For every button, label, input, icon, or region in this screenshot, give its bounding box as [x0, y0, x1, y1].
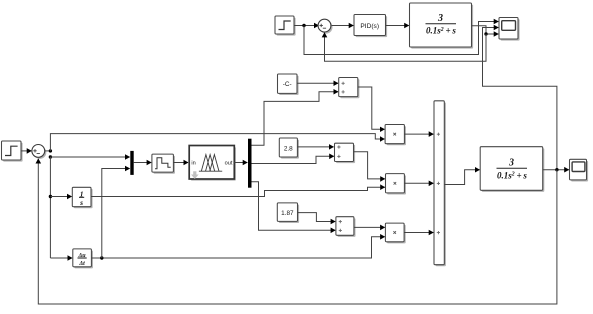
constant -C- — [278, 74, 299, 95]
product x1 — [385, 125, 406, 146]
wire Add1 to x1 in1 — [358, 87, 385, 129]
wire Mux to Quantizer — [134, 162, 152, 164]
scope Scope2 — [570, 159, 589, 181]
wire Step1 to Sum1 — [294, 25, 319, 27]
wire step branch down to Scope1 in1 — [304, 22, 498, 55]
wire PID to TF1 — [386, 25, 409, 27]
svg-text:s: s — [79, 198, 83, 207]
wire x2 to TallAdd in2 — [404, 182, 433, 184]
node error branch to mux — [49, 155, 52, 158]
node step branch junction — [302, 24, 305, 27]
node TF2 output junction — [555, 168, 558, 171]
wire error up-branch to x1 in2 (P term) — [50, 134, 384, 151]
wire Sum1 to PID — [332, 25, 354, 27]
svg-text:1.87: 1.87 — [281, 210, 294, 217]
wire integrator out to x2 in2 — [91, 187, 385, 196]
wire error to Mux in1 — [50, 156, 129, 158]
derivative block du/dt — [73, 249, 93, 269]
fuzzy logic controller — [189, 146, 236, 181]
svg-text:Δt: Δt — [78, 261, 85, 267]
svg-text:out: out — [225, 161, 233, 167]
quantizer block — [152, 154, 175, 174]
sum Sum1 — [318, 19, 332, 33]
transfer function TF2 3/(0.1s^2+s) — [480, 147, 544, 192]
node derivative output junction — [100, 256, 103, 259]
wire TF2 to Scope2 — [543, 169, 569, 171]
wire Step to Sum2 — [21, 150, 31, 152]
wire error to derivative du/dt — [50, 257, 72, 259]
wire derivative up to Mux in2 — [102, 169, 130, 259]
node error junction e — [49, 149, 52, 152]
wire 2.8 to Add2 in1 — [297, 146, 333, 148]
wire error to integrator 1/s — [50, 196, 71, 198]
sum Sum2 — [32, 145, 46, 159]
wire Demux out2 to Add2 in2 — [252, 156, 334, 163]
adder TallAdd — [434, 101, 446, 266]
step source Step (main) — [2, 141, 23, 162]
node error branch to integrator — [49, 195, 52, 198]
product x2 — [386, 174, 407, 195]
wire TF2 response up to Scope1 in2 — [483, 28, 557, 170]
product x3 — [385, 223, 405, 243]
wire -C- to Add1 in1 — [297, 82, 338, 84]
wire 1.87 to Add3 in1 — [298, 213, 336, 222]
wire Demux out3 to Add3 in2 — [252, 182, 336, 231]
wire Sum2 out to error junction — [45, 150, 51, 152]
adder Add2 — [335, 143, 356, 163]
wire error down-branch — [49, 157, 51, 258]
integrator 1/s — [72, 187, 92, 208]
constant 2.8 — [279, 138, 299, 159]
wire x1 to TallAdd in1 — [404, 133, 433, 135]
wire Fuzzy to Demux — [234, 162, 247, 164]
wire TallAdd to TF2 — [444, 170, 479, 185]
wire Quantizer to Fuzzy — [173, 162, 188, 164]
wire Add3 to x3 in1 — [354, 226, 385, 228]
wire TF1 out to Scope1 in3 — [472, 26, 499, 34]
svg-text:3: 3 — [437, 13, 443, 24]
wire TF1 feedback to Sum1 bottom — [325, 33, 487, 61]
wire Add2 to x2 in1 — [354, 152, 385, 179]
svg-text:3: 3 — [508, 157, 514, 168]
transfer function TF1 3/(0.1s^2+s) — [410, 3, 474, 49]
svg-text:in: in — [191, 161, 195, 167]
wire x3 to TallAdd in3 — [404, 232, 433, 234]
mux Mux — [130, 151, 133, 175]
wire derivative out to x3 in2 — [91, 237, 384, 258]
PID controller PID(s) — [354, 15, 387, 38]
svg-text:PID(s): PID(s) — [360, 23, 379, 30]
wire TF2 feedback bottom loop to Sum2 — [38, 159, 557, 304]
node TF1 output junction — [484, 32, 487, 35]
constant 1.87 — [277, 203, 299, 223]
adder Add1 — [339, 78, 360, 99]
adder Add3 — [336, 217, 356, 237]
scope Scope1 — [499, 18, 520, 41]
wire Demux out1 to Add1 in2 — [252, 92, 339, 146]
svg-text:-C-: -C- — [283, 81, 292, 88]
svg-text:2.8: 2.8 — [284, 145, 293, 152]
demux Demux — [248, 139, 252, 188]
step source Step1 (top) — [275, 16, 296, 36]
